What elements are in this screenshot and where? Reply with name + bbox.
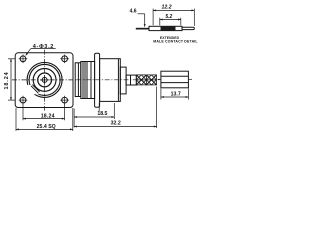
- svg-text:4.6: 4.6: [130, 9, 137, 15]
- svg-text:4-Φ3.2: 4-Φ3.2: [33, 44, 54, 50]
- svg-text:18.5: 18.5: [97, 111, 107, 117]
- svg-text:MALE CONTACT DETAIL: MALE CONTACT DETAIL: [153, 40, 198, 44]
- svg-text:12.2: 12.2: [162, 5, 172, 11]
- svg-text:13.7: 13.7: [171, 91, 181, 97]
- svg-text:25.4 SQ: 25.4 SQ: [37, 124, 56, 130]
- svg-text:18.24: 18.24: [41, 114, 55, 120]
- svg-text:5.2: 5.2: [165, 14, 172, 20]
- svg-text:18.24: 18.24: [4, 72, 10, 90]
- svg-text:32.2: 32.2: [111, 120, 121, 126]
